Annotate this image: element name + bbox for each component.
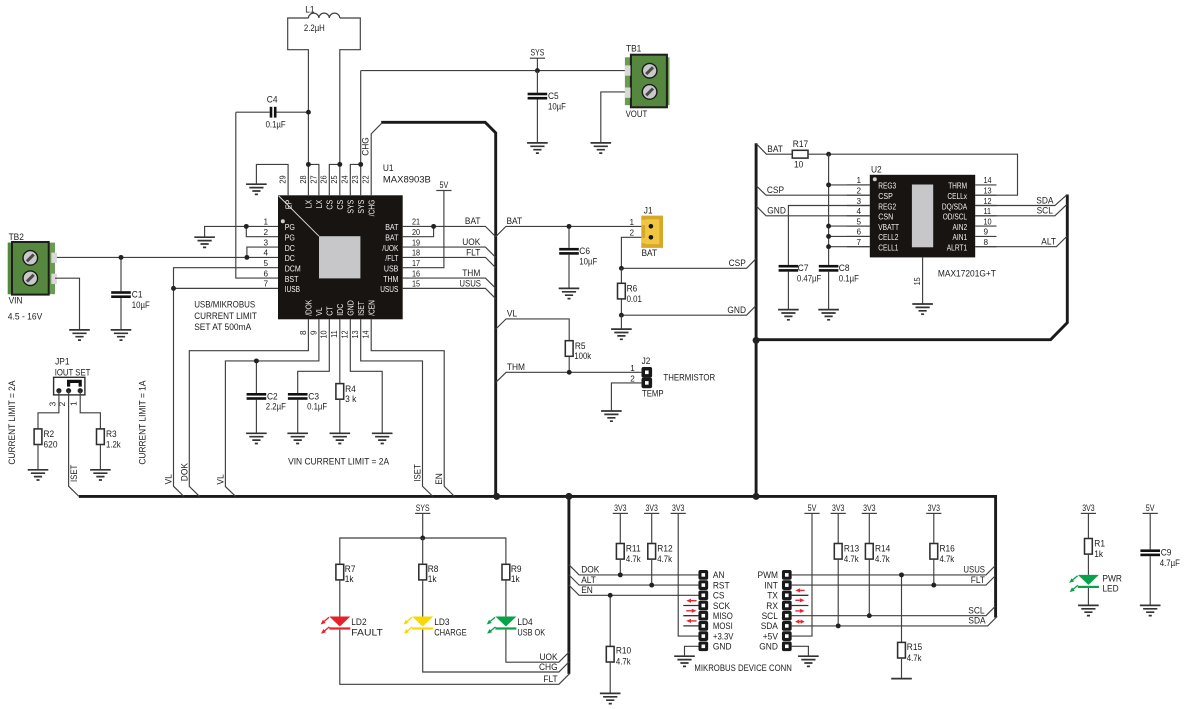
wire U1 pin28/27 LX pair [308,164,319,195]
svg-text:THM: THM [462,268,480,279]
main horizontal bus [79,496,996,617]
inductor L1 2.2uH [288,18,361,164]
svg-text:FLT: FLT [466,247,480,258]
svg-text:SYS: SYS [347,200,356,214]
resistor R2 620 [34,429,42,445]
capacitor C8 0.1uF [819,265,839,268]
wire JP1 pin1 to R3 [80,391,100,429]
svg-text:21: 21 [412,218,420,227]
svg-text:/UOK: /UOK [382,244,399,253]
svg-text:USUS: USUS [380,285,398,294]
wire J1 pin2 to CSP node [621,237,641,268]
svg-text:U1: U1 [383,163,394,174]
svg-text:3V3: 3V3 [646,503,658,514]
wire ALT from frame to RST [569,575,699,585]
wire LD4 UOK to frame [506,630,570,663]
node C1 junction [119,255,124,260]
svg-text:4.7k: 4.7k [875,554,890,565]
ground C8 [818,310,839,320]
svg-text:EN: EN [433,473,444,485]
svg-text:R1: R1 [1094,538,1105,549]
svg-text:VL: VL [507,309,518,320]
wire JP1 pin2 ISET to bus [69,391,79,497]
svg-text:10: 10 [984,217,992,226]
resistor R13 4.7k [834,544,842,560]
wire TB2 pin2 to ground [55,278,80,330]
svg-text:EP: EP [284,200,293,209]
wire U2 pin7 CELL1 [829,246,870,248]
wire U1 pin11 IDC to R4 [339,319,341,383]
svg-text:VL: VL [214,474,225,484]
svg-text:4.7k: 4.7k [657,554,672,565]
wire BAT bus to J1 [496,226,642,236]
svg-text:GND: GND [767,205,786,216]
wire U1 USUS to bus [403,288,496,298]
svg-text:10: 10 [794,159,803,170]
svg-text:ALT: ALT [1041,236,1056,247]
svg-text:C6: C6 [579,246,590,257]
bus junction dot C [753,493,760,500]
svg-text:1.2k: 1.2k [106,439,121,450]
svg-text:THM: THM [383,275,398,284]
svg-text:CSP: CSP [767,185,784,196]
svg-text:BST: BST [285,275,299,284]
node BAT-C6 junction [567,224,572,229]
wire 3V3 to +3.3V pin [678,513,698,636]
ground C7 [778,310,799,320]
svg-text:CSP: CSP [729,258,746,269]
svg-text:3V3: 3V3 [614,503,626,514]
svg-text:15: 15 [412,280,420,289]
wire U1 USB to 5V [403,191,444,268]
wire U1 pin9 VL to VL column [225,319,319,496]
svg-text:14: 14 [362,330,371,338]
svg-text:R12: R12 [657,543,672,554]
svg-text:R11: R11 [626,543,641,554]
wire U1 pin26/25 CS pair [329,164,340,195]
svg-text:J1: J1 [644,205,653,216]
svg-text:23: 23 [351,175,360,183]
wire C4 to BST [236,112,278,278]
node R5-THM junction [567,370,572,375]
svg-text:3: 3 [856,197,861,206]
svg-text:9: 9 [984,228,989,237]
wire DOK from frame to AN [569,565,699,575]
svg-text:14: 14 [984,176,992,185]
resistor R7 1k [336,564,344,580]
svg-text:USUS: USUS [459,278,481,289]
svg-text:R10: R10 [616,646,631,657]
svg-text:C1: C1 [132,290,143,301]
svg-text:CT: CT [326,306,335,315]
wire U2 pin3 REG2 to C7 [788,206,869,265]
capacitor C3 0.1uF [297,400,299,434]
LED LD2 FAULT red [329,617,350,627]
svg-text:3V3: 3V3 [832,503,844,514]
terminal block TB1 VOUT [625,57,670,105]
svg-text:DC: DC [285,254,295,263]
svg-text:8: 8 [299,330,308,335]
IC U2 MAX17201G+T body [870,175,975,258]
svg-text:29: 29 [279,175,288,183]
svg-text:2: 2 [630,374,635,383]
wire PWM/USUS line [792,565,996,575]
svg-text:CURRENT LIMIT: CURRENT LIMIT [194,311,257,322]
wire U1 pin24/23 SYS pair [350,164,360,195]
wire SCL line [792,606,996,616]
ground C1 [111,330,132,340]
svg-text:VL: VL [162,474,173,484]
connector J1 BAT (battery) [641,216,663,248]
svg-text:5V: 5V [440,180,449,191]
bus frame U1 section (CHG/UOK/FLT/THM/USUS bus) [381,122,496,495]
svg-text:5: 5 [856,217,861,226]
svg-text:J2: J2 [642,356,651,367]
U2 pin15 to ground [922,257,924,304]
ground C9 [1140,605,1161,615]
svg-text:ISET: ISET [357,301,366,316]
svg-text:BAT: BAT [465,216,481,227]
svg-text:11: 11 [984,207,992,216]
svg-text:SYS: SYS [357,200,366,214]
wire left header GND to ground [685,646,699,656]
wire U1 IUSB to VL column [174,287,279,289]
node R17 junction [826,152,831,157]
wire U1 pin13 ISET to bus [361,319,433,496]
svg-text:10µF: 10µF [579,257,597,268]
resistor R12 4.7k [648,544,656,560]
wire BAT from U2 frame to R17 [756,144,792,154]
svg-text:10: 10 [320,330,329,338]
capacitor C1 10uF [120,257,122,330]
bus frame U2 section bottom and right edge [756,195,1067,340]
right header direction arrows [800,589,805,591]
svg-text:100k: 100k [574,351,591,362]
wire VIN to U1 DC pins [55,247,278,257]
svg-text:3 k: 3 k [345,394,356,405]
svg-text:CSN: CSN [878,213,893,222]
svg-text:17: 17 [412,259,420,268]
svg-text:4.5 - 16V: 4.5 - 16V [8,311,43,322]
U2 right pin stubs [975,185,996,247]
resistor R14 4.7k [865,544,873,560]
wire R9 to LD4 [505,580,507,617]
wire U1 BAT pins to bus [403,226,496,236]
svg-text:3: 3 [263,238,268,247]
wire U1 pin22 /CHG to bus [371,124,381,196]
svg-text:1: 1 [70,401,79,406]
svg-text:LX: LX [315,199,324,208]
svg-text:IUSB: IUSB [285,285,300,294]
svg-text:OD/SCL: OD/SCL [943,213,968,222]
svg-text:SCL: SCL [1037,206,1054,217]
svg-text:VBATT: VBATT [878,223,899,232]
wire TB1 pin2 to ground [601,92,625,143]
svg-text:620: 620 [44,439,58,450]
ground R15 (single bar) [891,678,912,680]
svg-text:CHG: CHG [359,137,370,156]
wire J2 pin2 to ground [611,383,641,411]
ground R3 [90,470,111,480]
resistor R3 1.2k [97,429,105,445]
U2 left pin stubs [847,185,870,247]
svg-text:3V3: 3V3 [928,503,940,514]
wire U2 pin1 REG3 [829,184,870,186]
node CS pair [337,162,342,167]
svg-text:CURRENT LIMIT = 2A: CURRENT LIMIT = 2A [6,380,17,465]
bus frame LED/mikrobus section left edge [567,496,570,674]
svg-text:0.01: 0.01 [627,294,642,305]
svg-text:CELL1: CELL1 [878,244,899,253]
svg-text:THRM: THRM [948,182,967,191]
ground EP [246,184,267,194]
resistor R5 100k [565,341,573,357]
svg-text:SYS: SYS [416,503,430,514]
svg-text:ISET: ISET [411,464,422,482]
svg-text:USB: USB [384,265,399,274]
node LX pair [306,162,311,167]
svg-text:22: 22 [362,175,371,183]
ground C5 [527,143,548,153]
svg-text:BAT: BAT [767,144,783,155]
ground TB1 [591,143,612,153]
node C4-LX junction [306,110,311,115]
svg-text:2.2µF: 2.2µF [266,402,286,413]
svg-text:LED: LED [1102,583,1118,594]
resistor R17 10 [792,150,808,158]
svg-text:PG: PG [285,234,295,243]
svg-text:CHG: CHG [539,662,558,673]
wire U2 pin5 VBATT [829,225,870,227]
ground PWR LED [1078,605,1099,615]
svg-text:26: 26 [320,175,329,183]
svg-text:/DOK: /DOK [305,299,314,316]
ground R4 [330,433,351,443]
wire U2 ALRT1 to frame [975,236,1067,247]
node CSP junction [619,266,624,271]
svg-text:MIKROBUS DEVICE CONN: MIKROBUS DEVICE CONN [694,663,792,674]
wire LD2 FLT to frame [340,630,570,685]
svg-text:AIN1: AIN1 [953,233,968,242]
header mikrobus left column [698,570,708,580]
svg-text:MAX17201G+T: MAX17201G+T [938,269,996,280]
wire R7 to LD2 [339,580,341,617]
svg-text:/FLT: /FLT [385,254,398,263]
svg-text:3V3: 3V3 [1082,503,1094,514]
wire PWR LED to ground [1087,588,1089,605]
node DC junction [244,255,249,260]
svg-text:7: 7 [856,238,861,247]
svg-text:18: 18 [412,249,420,258]
LED PWR green [1078,575,1099,585]
node BAT junction [431,224,436,229]
wire EN from frame to CS [569,585,699,595]
svg-text:USB OK: USB OK [517,627,545,638]
svg-text:EN: EN [581,585,593,596]
svg-text:CHARGE: CHARGE [434,627,467,638]
wire U1 pin8 /DOK to DOK column [189,319,308,496]
resistor R15 4.7k [901,575,903,643]
svg-text:4.7k: 4.7k [844,554,859,565]
svg-text:LX: LX [305,199,314,208]
svg-text:R15: R15 [907,642,922,653]
svg-text:2.2µH: 2.2µH [304,23,325,34]
svg-text:12: 12 [341,330,350,338]
svg-text:5V: 5V [1146,503,1155,514]
svg-text:1k: 1k [428,574,437,585]
svg-text:VOUT: VOUT [626,109,648,120]
node IUSB junction [171,286,176,291]
wire U1 /UOK to bus [403,247,496,257]
svg-text:1: 1 [856,176,861,185]
left header direction arrows [691,600,697,602]
LED LD4 USB OK green [495,617,516,627]
svg-text:JP1: JP1 [55,357,69,368]
svg-text:6: 6 [856,228,861,237]
svg-text:GND: GND [713,641,732,652]
svg-text:SDA: SDA [968,616,986,627]
svg-text:1: 1 [263,218,268,227]
svg-text:FAULT: FAULT [351,627,383,638]
svg-text:9: 9 [309,330,318,335]
svg-text:10µF: 10µF [132,300,150,311]
svg-text:AIN2: AIN2 [953,223,968,232]
ground PG [194,237,215,247]
ground TB2 [69,330,90,340]
svg-text:CELLx: CELLx [947,192,967,201]
wire U1 THM to bus [403,278,496,288]
svg-text:CSP: CSP [878,192,893,201]
connector J2 thermistor header [642,367,653,378]
ground R6 [611,329,632,339]
wire U2 pin6 CELL2 [829,235,870,237]
svg-text:THM: THM [507,362,525,373]
bus frame U2 section left edge [755,143,758,495]
svg-text:27: 27 [309,175,318,183]
wire SDA line [792,616,998,626]
node SYS-C5 junction [535,68,540,73]
svg-text:GND: GND [759,641,778,652]
wire U1 DCM to VL column [174,268,279,497]
svg-text:FLT: FLT [543,674,557,685]
svg-text:0.1µF: 0.1µF [307,402,327,413]
wire 5V to +5V pin [792,513,812,636]
svg-text:TEMP: TEMP [642,389,664,400]
svg-text:/CEN: /CEN [367,300,376,316]
svg-text:FLT: FLT [971,575,985,586]
svg-text:7: 7 [263,280,268,289]
node PG junction [244,224,249,229]
svg-text:2: 2 [856,187,861,196]
left header stub wires [683,606,698,626]
svg-text:24: 24 [341,175,350,183]
svg-text:MAX8903B: MAX8903B [383,175,431,186]
svg-text:R16: R16 [940,543,955,554]
svg-text:1k: 1k [345,574,354,585]
svg-text:0.1µF: 0.1µF [266,120,286,131]
svg-text:1: 1 [629,218,634,227]
svg-text:CURRENT LIMIT = 1A: CURRENT LIMIT = 1A [137,380,148,465]
wire U1 PG pins to ground [205,226,278,237]
svg-text:VIN CURRENT LIMIT = 2A: VIN CURRENT LIMIT = 2A [288,456,390,467]
svg-text:5V: 5V [808,503,817,514]
resistor R6 0.01 [620,268,622,315]
svg-text:R14: R14 [875,543,891,554]
wire VL from bus to R5 [496,319,570,341]
svg-text:2: 2 [629,228,634,237]
svg-text:ISET: ISET [68,464,79,482]
svg-text:IDC: IDC [336,304,345,316]
svg-text:TB1: TB1 [626,44,641,55]
terminal block TB2 VIN [8,243,55,295]
svg-text:PG: PG [285,223,295,232]
ground C6 [559,288,580,298]
resistor R4 3k [336,384,344,400]
resistor R1 1k [1085,539,1093,555]
svg-text:VL: VL [315,307,324,316]
bus junction dot A [493,493,500,500]
wire CSP to U2 frame [621,259,756,269]
svg-text:3V3: 3V3 [672,503,684,514]
svg-text:DCM: DCM [285,265,301,274]
svg-text:11: 11 [330,330,339,338]
svg-text:C2: C2 [267,391,278,402]
svg-text:4.7k: 4.7k [626,554,641,565]
wire R8 to LD3 [422,580,424,617]
svg-text:U2: U2 [871,165,882,176]
svg-text:C5: C5 [548,91,559,102]
svg-text:4.7k: 4.7k [907,653,922,664]
wire THM from bus to J2 [496,372,642,382]
node GND junction [619,313,624,318]
right header stub wires [792,595,809,605]
wire U1 pin10 CT to C3 [298,319,330,393]
svg-text:SYS: SYS [531,48,545,59]
svg-text:20: 20 [412,228,420,237]
svg-text:VIN: VIN [9,296,23,307]
ground pin12 [372,433,393,443]
header mikrobus right column [782,570,792,580]
svg-text:15: 15 [913,277,922,285]
svg-text:1k: 1k [511,574,520,585]
node C2 junction [254,358,259,363]
node SYS rail junction [420,536,425,541]
svg-text:C4: C4 [267,95,278,106]
svg-text:THERMISTOR: THERMISTOR [663,372,715,383]
wire U2 pin2 CSP from frame [756,186,869,195]
bus junction dot B [565,493,572,500]
svg-text:DOK: DOK [178,462,189,481]
svg-text:19: 19 [412,238,420,247]
svg-text:USB/MIKROBUS: USB/MIKROBUS [194,300,255,311]
wire U1 pin14 /CEN to bus [371,319,454,496]
ground U2 pin15 [912,304,933,314]
svg-text:L1: L1 [305,5,314,16]
capacitor C6 10uF [568,226,570,288]
svg-text:28: 28 [299,175,308,183]
svg-text:4: 4 [263,249,268,258]
svg-text:6: 6 [263,269,268,278]
svg-text:16: 16 [412,269,420,278]
svg-text:0.47µF: 0.47µF [797,274,822,285]
svg-text:CS: CS [336,200,345,210]
svg-text:4.7µF: 4.7µF [1160,558,1180,569]
node SYS pair [358,162,363,167]
resistor R16 4.7k [930,544,938,560]
svg-text:UOK: UOK [462,237,481,248]
svg-text:BAT: BAT [385,234,398,243]
wire U2 OD/SCL to frame [975,204,1067,216]
